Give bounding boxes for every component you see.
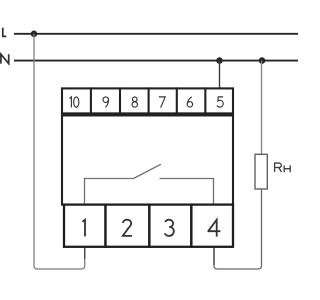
terminal divider 10|9 [90, 87, 92, 114]
node L label [3, 28, 7, 37]
terminal strip bottom row outline [64, 205, 233, 247]
junction dot on N feeding resistor [259, 57, 266, 64]
terminal 6 digit [187, 97, 192, 107]
terminal 5 digit [217, 97, 223, 107]
terminal 4 digit [208, 220, 221, 237]
terminal divider 8|7 [148, 87, 150, 114]
wire from terminal 4 down and around to resistor bottom [214, 189, 262, 269]
relay contact left pole from terminal 1 [85, 179, 134, 205]
resistor label H subscript [284, 165, 290, 172]
junction dot on L at x=34 [31, 31, 38, 38]
wire from N down to resistor top [261, 61, 263, 155]
junction dot on N feeding terminal 5 [216, 57, 223, 64]
relay contact right pole to terminal 4 [160, 179, 214, 205]
device body outline [62, 115, 233, 204]
node N label [1, 54, 9, 63]
wire N line [14, 60, 298, 62]
terminal divider 9|8 [119, 87, 121, 114]
wire from L down and around to terminal 1 [34, 34, 85, 269]
terminal divider 2|3 [148, 204, 151, 248]
terminal divider 3|4 [190, 204, 193, 248]
resistor RH body [255, 154, 267, 189]
relay contact blade (open switch) [134, 164, 161, 178]
terminal divider 6|5 [204, 87, 206, 114]
wire L line [14, 33, 298, 35]
terminal 9 digit [103, 97, 109, 107]
wire from N down to terminal 5 [219, 61, 221, 88]
terminal divider 1|2 [104, 204, 107, 248]
terminal 1 digit [82, 220, 85, 237]
terminal 7 digit [159, 97, 165, 108]
terminal divider 7|6 [176, 87, 178, 114]
terminal 3 digit [165, 220, 174, 236]
terminal 10 digit [70, 97, 79, 108]
terminal strip top row outline [62, 88, 233, 113]
resistor label R [275, 163, 282, 172]
terminal 8 digit [132, 97, 137, 107]
terminal 2 digit [123, 220, 132, 236]
